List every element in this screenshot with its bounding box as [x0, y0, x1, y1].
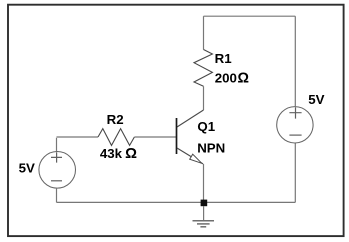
- resistor R1: [194, 50, 212, 87]
- V1 minus sign: [51, 180, 62, 182]
- svg-text:NPN: NPN: [197, 141, 225, 156]
- transistor Q1 emitter diagonal: [177, 148, 203, 164]
- voltage source V2 circle: [277, 107, 313, 143]
- svg-text:5V: 5V: [308, 92, 324, 107]
- svg-text:200Ω: 200Ω: [215, 71, 249, 87]
- svg-text:R1: R1: [215, 51, 233, 66]
- V1 plus sign: [51, 152, 62, 162]
- svg-text:Q1: Q1: [197, 119, 215, 134]
- wire base horizontal right lead: [134, 136, 176, 138]
- wire left source top: [56, 138, 58, 152]
- wire R1 bottom lead / collector: [203, 86, 205, 110]
- voltage source V1 circle: [39, 152, 76, 189]
- wire left source bottom: [56, 188, 58, 203]
- wire top horizontal: [204, 15, 296, 17]
- V2 minus sign: [289, 134, 301, 136]
- transistor Q1 collector diagonal: [177, 110, 204, 127]
- svg-text:5V: 5V: [19, 160, 35, 175]
- junction node: [201, 200, 208, 207]
- wire right source bottom: [294, 143, 296, 203]
- svg-text:43kΩ: 43kΩ: [100, 146, 137, 162]
- V2 plus sign: [289, 107, 301, 118]
- ground: [193, 221, 215, 227]
- svg-text:R2: R2: [107, 112, 124, 127]
- wire bottom horizontal: [57, 201, 296, 203]
- resistor R2: [98, 129, 134, 146]
- wire right source top: [294, 16, 296, 107]
- wire junction to ground: [203, 206, 205, 220]
- wire emitter vertical: [203, 164, 205, 200]
- transistor Q1 emitter arrow: [190, 154, 202, 163]
- wire base horizontal left lead: [57, 136, 99, 138]
- transistor Q1 base bar: [176, 118, 178, 154]
- wire R1 top lead: [203, 16, 205, 49]
